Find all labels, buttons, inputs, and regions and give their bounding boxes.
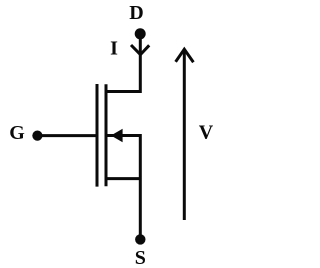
wire: body stub from channel to right rail bbox=[106, 134, 140, 137]
node dot S bbox=[135, 234, 145, 244]
transistor M1 gate bar bbox=[96, 84, 99, 187]
wire: source stub bbox=[105, 177, 140, 180]
wire: right rail from body stub down to node S bbox=[139, 134, 142, 239]
transistor M1 channel bar bbox=[105, 84, 108, 186]
node dot D bbox=[135, 28, 146, 39]
voltage arrow V head bbox=[176, 49, 194, 62]
svg-text:G: G bbox=[9, 122, 25, 144]
wire: drain stub and drain lead up to node D bbox=[105, 34, 140, 92]
wire: gate lead from node G bbox=[37, 134, 96, 137]
node dot G bbox=[32, 131, 42, 141]
current arrow I head (chevron on drain lead) bbox=[131, 45, 149, 55]
svg-text:V: V bbox=[199, 121, 214, 143]
transistor M1 body arrow (triangle pointing to channel) bbox=[111, 129, 123, 143]
svg-text:D: D bbox=[129, 2, 143, 24]
svg-text:I: I bbox=[110, 38, 118, 60]
voltage arrow V shaft bbox=[183, 50, 186, 220]
svg-text:S: S bbox=[135, 247, 146, 268]
